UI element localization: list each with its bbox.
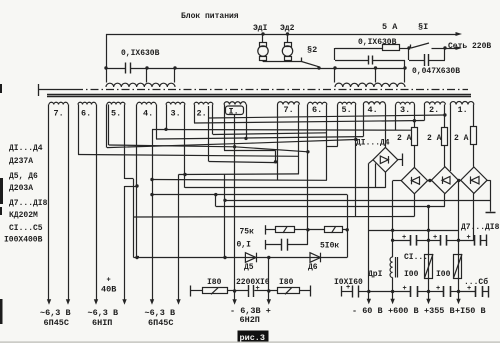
terminal - bridge plus output [398, 159, 403, 161]
wire bus b15 [152, 179, 327, 182]
svg-text:ДІ...Д4: ДІ...Д4 [9, 144, 43, 153]
transformer winding 4 (left) [137, 102, 156, 104]
rectifier bridge B (+355V) [431, 167, 458, 194]
wire - winding 3 right-group left side [395, 105, 397, 131]
svg-text:І00: І00 [436, 270, 451, 279]
svg-text:Сеть 220В: Сеть 220В [448, 42, 491, 51]
node - mains switch junction [443, 46, 446, 49]
wire - winding 3 left-group right side descender [184, 105, 186, 188]
svg-text:6П45С: 6П45С [44, 318, 70, 328]
svg-text:6.: 6. [312, 105, 322, 115]
wire bus b17a to Д5/Д6 riser [152, 194, 347, 196]
capacitor 0,1 [266, 244, 282, 246]
svg-text:5.: 5. [111, 109, 121, 119]
capacitor 10Х160 [342, 291, 354, 293]
svg-text:3.: 3. [171, 109, 181, 119]
wire - winding 6 right (right group) descender to 75k node [307, 105, 309, 245]
switch S1 [410, 45, 412, 49]
scan artifact left edge [0, 84, 2, 93]
transformer winding 2 (right) [424, 102, 445, 105]
capacitor 0,1Х630В across right primary [335, 60, 368, 62]
wire - winding 1 right-group left side to bridge B edge [450, 105, 452, 172]
wire - right primary to fuse line [334, 48, 336, 60]
svg-text:Д7...ДІ8: Д7...ДІ8 [9, 199, 48, 208]
fuse 2А (winding 1 right) [473, 105, 475, 127]
fuse 2А (winding 2 right) [444, 105, 446, 128]
wire - bottom electrolytic bus [369, 291, 411, 293]
transformer winding 5 (right) [338, 102, 356, 104]
svg-text:3.: 3. [400, 105, 410, 115]
capacitor 2200Х16 [235, 290, 249, 292]
transformer winding 2 (left) [194, 102, 213, 104]
wire - +150V rail from bridge B/C junction [458, 181, 460, 300]
transformer core (double bar) [47, 94, 471, 96]
capacitor С2 (+355 smoothing) [429, 240, 441, 242]
rectifier bridge C (+150V) [461, 167, 487, 193]
capacitor 0,047Х630В across mains [408, 48, 410, 60]
wire - winding 7 right-group right side [298, 105, 300, 174]
svg-text:КД202М: КД202М [9, 211, 38, 220]
svg-text:5.: 5. [342, 105, 352, 115]
svg-text:- 60 В: - 60 В [352, 306, 383, 316]
svg-text:7.: 7. [284, 105, 294, 115]
transformer winding 3 (left) [166, 102, 185, 104]
switch S2 [301, 58, 303, 62]
svg-text:СІ...С5: СІ...С5 [9, 224, 43, 233]
terminal - cap row right tick [486, 235, 488, 247]
svg-text:~6,3 В: ~6,3 В [40, 308, 71, 318]
wire bus b1 [209, 115, 445, 118]
svg-text:СІ...: СІ... [404, 253, 428, 262]
resistor 180 (left) [191, 290, 203, 292]
svg-text:Блок питания: Блок питания [181, 12, 239, 21]
wire bus b6 from winding 5 left [107, 140, 356, 148]
terminal - 180 right tick [310, 286, 312, 297]
svg-text:ДІ...Д4: ДІ...Д4 [356, 139, 390, 148]
wire bus b2 from winding 2 left [194, 121, 424, 124]
svg-text:6.: 6. [81, 109, 91, 119]
terminal - bottom row right tick [488, 286, 490, 298]
svg-text:Эд2: Эд2 [280, 24, 295, 33]
wire - winding 7 left side to output [48, 105, 50, 300]
wire - +600V rail from bridge A [393, 180, 402, 182]
capacitor С5 (+150 smoothing) Д7...Д18 side [459, 240, 475, 242]
wire - winding 7 right-group left side [277, 105, 279, 181]
transformer core terminal tick [38, 84, 40, 96]
wire - stub from bridge lower-left edge to bus [375, 164, 377, 188]
fuse 2А (winding 3 right) [414, 105, 416, 128]
wire - branch to output pair2 right [125, 186, 138, 188]
wire bus b21 [369, 230, 459, 232]
svg-text:5І0к: 5І0к [320, 242, 339, 251]
svg-text:Д5: Д5 [244, 263, 254, 272]
capacitor (355-150) [429, 291, 444, 293]
capacitor С1 (+600 smoothing) [393, 240, 410, 242]
svg-text:І.: І. [229, 107, 239, 117]
node - bridge B-C junction [458, 180, 460, 182]
wire bus b11 [209, 162, 278, 163]
capacitor (150-tick) [459, 291, 476, 293]
svg-text:§I: §I [418, 22, 428, 32]
wire bus b17b to common [225, 200, 491, 202]
svg-text:2.: 2. [197, 109, 207, 119]
ground - bridge C right common [487, 180, 490, 182]
svg-text:5 А: 5 А [382, 22, 398, 32]
wire - winding 6 right side to output [96, 105, 98, 300]
svg-text:Д6: Д6 [308, 263, 318, 272]
wire - U link winding 6 right to winding 5 left (right group) [326, 105, 328, 181]
transformer winding 7 (left) [49, 102, 68, 104]
transformer winding 1 (left) with screen box [224, 102, 246, 105]
transformer winding 5 (left) [107, 102, 125, 104]
capacitor 0,1Х630В across left primary section [106, 68, 126, 70]
svg-text:І00: І00 [404, 270, 419, 279]
svg-text:2200ХІ6: 2200ХІ6 [236, 278, 270, 287]
svg-text:0,І: 0,І [237, 241, 252, 250]
svg-text:4.: 4. [368, 105, 378, 115]
svg-text:Д5, Д6: Д5, Д6 [9, 172, 38, 181]
motor Эд1 [262, 34, 264, 42]
svg-text:ЭдI: ЭдI [253, 24, 268, 33]
transformer winding 6 (left) [78, 102, 96, 104]
svg-text:6П45С: 6П45С [148, 318, 174, 328]
svg-text:6НІП: 6НІП [92, 318, 112, 328]
capacitor 100 (on +150 rail) [454, 255, 462, 279]
diode Д6 [310, 253, 321, 263]
wire - riser to Д5/Д6 line [347, 195, 349, 258]
svg-text:+600 В: +600 В [388, 306, 419, 316]
svg-text:Д237А: Д237А [9, 157, 33, 166]
wire bus b8 from winding 6 left [78, 155, 299, 157]
svg-text:+І50 В: +І50 В [455, 306, 486, 316]
svg-text:+: + [403, 285, 407, 293]
node - 6Н2П right branch [267, 256, 270, 259]
wire - line from cap to switch S2 node and right primary [131, 68, 406, 70]
transformer winding 4 (right) [363, 102, 385, 105]
wire - bridge C bottom to capacitor row [473, 193, 475, 240]
wire - +355V rail [428, 207, 430, 300]
wire - bridge left to -60V rail [369, 160, 373, 164]
svg-text:~6,3 В: ~6,3 В [88, 308, 119, 318]
wire bus b4 from winding 2 right [213, 133, 327, 135]
svg-text:Д7...ДІ8: Д7...ДІ8 [461, 223, 500, 232]
svg-text:2 А: 2 А [427, 134, 442, 143]
wire - +600V rail lower [392, 278, 394, 300]
wire bus b10 from winding 1 left [224, 150, 276, 152]
node - bridge A-B junction [428, 180, 432, 182]
svg-text:+: + [107, 277, 111, 285]
svg-text:І0ХІ60: І0ХІ60 [334, 278, 363, 287]
terminal - 0,1 cap left tick [265, 240, 267, 250]
transformer winding 6 (right) [308, 102, 327, 104]
svg-text:+: + [402, 234, 406, 242]
svg-text:0,047Х630В: 0,047Х630В [412, 67, 460, 76]
svg-text:7.: 7. [54, 109, 64, 119]
svg-text:+: + [467, 234, 471, 242]
transformer winding 1 (right) [450, 102, 474, 105]
node - fuse/switch junction [407, 46, 410, 49]
svg-text:І80: І80 [207, 278, 222, 287]
transformer core dash-dot line [39, 89, 75, 91]
svg-text:2.: 2. [429, 105, 439, 115]
svg-text:+355 В: +355 В [424, 306, 455, 316]
svg-text:0,IХ630В: 0,IХ630В [358, 38, 397, 47]
choke Др1 [390, 257, 393, 278]
wire - to mains with arrow [445, 48, 456, 50]
resistor 75к [266, 229, 276, 231]
wire bus b3 from winding 3 left to fuse 1 [152, 129, 411, 132]
svg-text:2 А: 2 А [454, 134, 469, 143]
svg-text:І00Х400В: І00Х400В [4, 236, 43, 245]
svg-text:Д203А: Д203А [9, 184, 33, 193]
wire - mains top line to Сеть 220В [106, 34, 456, 36]
svg-text:40В: 40В [101, 285, 116, 295]
capacitor (600-355) [410, 286, 412, 297]
wire bus b7 inner line from winding 5 left [109, 145, 308, 152]
transformer winding 7 (right) [278, 102, 300, 105]
svg-text:§2: §2 [307, 45, 317, 55]
terminal - 180 left tick [190, 286, 192, 297]
wire bus b5 from winding 4 right [156, 137, 363, 139]
svg-text:75к: 75к [240, 228, 255, 237]
figure label рис.3 [238, 331, 269, 343]
wire - Д5/Д6 bus [134, 257, 348, 259]
wire - winding 5 right side with jog [124, 105, 126, 180]
diode Д5 [245, 253, 256, 263]
wire bus b16 from winding 3 right to bridge Д1...Д4 bottom [185, 187, 386, 189]
svg-text:2 А: 2 А [397, 134, 412, 143]
terminal - 10Х160 tick [341, 286, 343, 297]
svg-text:+: + [433, 234, 437, 242]
svg-text:рис.3: рис.3 [240, 333, 266, 343]
svg-text:~6,3 В: ~6,3 В [145, 308, 176, 318]
wire bus b13 to output pair3 right [179, 173, 300, 176]
resistor 180 (right) [269, 290, 278, 292]
wire - motors common line [263, 61, 302, 63]
wire - winding 7 right side to output [68, 105, 70, 300]
svg-text:1.: 1. [458, 105, 468, 115]
svg-text:6Н2П: 6Н2П [240, 315, 260, 325]
wire - winding 4 left descender [136, 105, 138, 257]
capacitor 100 (on +355 rail) [425, 255, 433, 279]
rectifier bridge Д1...Д4 [373, 147, 398, 172]
wire - bridge top from winding 4 right [385, 105, 387, 148]
transformer T1 primary winding (left section) [106, 68, 108, 83]
wire - left drop from top line [106, 34, 108, 68]
motor Эд2 [287, 34, 289, 42]
transformer winding 3 (right) [396, 102, 415, 104]
svg-text:+: + [436, 285, 440, 293]
wire - descender to output pair3 left [152, 130, 154, 300]
wire - bridge bottom to bus [385, 172, 387, 188]
svg-text:4.: 4. [143, 109, 153, 119]
node - 6Н2П left junction [233, 289, 236, 292]
terminal - 75к left tick [265, 225, 267, 234]
svg-text:І80: І80 [279, 278, 294, 287]
wire bus b19 to bridge A bottom [134, 216, 415, 219]
node - primary tap junctions on 0,1uF line [104, 66, 107, 69]
svg-text:+: + [467, 285, 471, 293]
wire bus b18 to bridge B [216, 206, 445, 208]
svg-text:0,IХ630В: 0,IХ630В [121, 49, 160, 58]
resistor 510к [308, 229, 325, 231]
svg-text:ДрІ: ДрІ [368, 270, 383, 279]
fuse F1 5A [335, 48, 382, 50]
transformer T1 primary winding (right section) [334, 68, 336, 83]
wire - winding 5 right (right group) descender [355, 105, 357, 217]
node - 6Н2П right junction [267, 289, 270, 292]
wire - winding 1 center tap descender [234, 115, 236, 300]
rectifier bridge A (+600V) [401, 167, 427, 193]
